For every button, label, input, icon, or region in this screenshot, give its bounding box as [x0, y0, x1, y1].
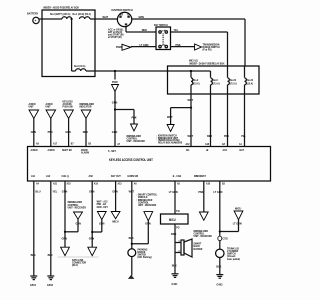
wire LG2 to ground: [48, 181, 58, 276]
wire KEY OUT to MICU arrow: [112, 181, 118, 212]
svg-text:UNDER - HOOD FUSE/RELAY BOX: UNDER - HOOD FUSE/RELAY BOX: [43, 6, 79, 10]
wire parking brake to body ground: [131, 257, 133, 276]
svg-text:PNK: PNK: [224, 134, 230, 138]
svg-text:GRN: GRN: [139, 15, 145, 19]
wire MICU box to smart back buzzer: [171, 224, 181, 253]
inline connector C725: [218, 236, 228, 241]
svg-text:B5: B5: [88, 141, 91, 145]
wire trunk switch to ground: [216, 258, 222, 275]
under-dash fuse/relay box: [168, 59, 260, 94]
ground G402: [216, 275, 223, 287]
svg-text:(10 A): (10 A): [247, 81, 253, 85]
arrow from immobilizer control unit-receiver into CHG wire: [64, 200, 87, 233]
svg-text:IG1: IG1: [186, 148, 190, 152]
svg-text:BUZZER: BUZZER: [194, 247, 204, 251]
svg-text:YEL: YEL: [53, 189, 58, 193]
svg-text:LT GRN: LT GRN: [214, 190, 223, 194]
svg-text:LT GRN: LT GRN: [169, 190, 178, 194]
svg-text:PNK: PNK: [176, 43, 182, 47]
svg-text:A17: A17: [53, 141, 57, 145]
svg-text:(7.5 A): (7.5 A): [230, 81, 237, 85]
svg-text:WHT: WHT: [103, 15, 109, 19]
svg-text:YEL: YEL: [174, 28, 179, 32]
svg-text:GRN - KEY: GRN - KEY: [97, 205, 108, 209]
svg-text:BAT: BAT: [120, 13, 124, 16]
svg-text:UNDER - DASH FUSE/RELAY BOX: UNDER - DASH FUSE/RELAY BOX: [189, 62, 225, 66]
control unit bottom internal labels: [31, 174, 206, 178]
wire GRN audio1 to control unit: [31, 119, 37, 147]
svg-text:ACC: ACC: [223, 148, 228, 152]
svg-text:A19: A19: [94, 181, 98, 185]
svg-text:at START (III): at START (III): [108, 35, 122, 39]
legend for connector: [97, 200, 108, 209]
svg-text:A4: A4: [36, 181, 39, 185]
svg-text:(P at PS): (P at PS): [203, 47, 212, 51]
arrow from audio unit 2: [46, 102, 56, 119]
svg-text:MICU: MICU: [235, 206, 242, 210]
svg-text:G401: G401: [172, 282, 178, 286]
svg-text:C725: C725: [223, 236, 229, 240]
svg-text:G501: G501: [30, 283, 36, 287]
svg-text:UNIT - RECEIVER: UNIT - RECEIVER: [68, 205, 87, 209]
svg-text:KEY OUT: KEY OUT: [111, 174, 121, 178]
svg-text:CHG (-): CHG (-): [62, 174, 70, 178]
svg-text:A7: A7: [117, 142, 120, 146]
wire B-CAN to MICU box, LT GRN: [169, 181, 180, 214]
svg-text:LT GRN: LT GRN: [140, 43, 149, 47]
arrow DLC 1: [61, 247, 70, 256]
smart back buzzer: [181, 239, 203, 257]
branch to immobilizer arrow: [115, 109, 134, 111]
wire GRN push switch to control unit: [65, 119, 71, 147]
svg-text:ALARM: ALARM: [81, 150, 89, 154]
svg-text:No.4 (ACG) (50 A): No.4 (ACG) (50 A): [73, 12, 91, 16]
fuse No.4 (ACG) (50A): [73, 12, 91, 19]
svg-text:A18: A18: [205, 142, 209, 146]
arrow from PGM feeding LT GRN: [116, 44, 131, 50]
wire IMMOENST to immobilizer arrow, PNK: [198, 181, 204, 212]
svg-text:G402: G402: [217, 283, 223, 287]
internal bus wire: [168, 66, 245, 78]
svg-text:GRN: GRN: [65, 130, 71, 134]
svg-text:UNIT - RECEIVER: UNIT - RECEIVER: [194, 234, 213, 238]
svg-text:+B: +B: [206, 148, 209, 152]
footnote list 2: [137, 193, 158, 207]
svg-text:A12: A12: [186, 142, 190, 146]
svg-text:GRN: GRN: [62, 189, 68, 193]
svg-text:YEL: YEL: [241, 134, 246, 138]
MICU box: [161, 214, 189, 224]
svg-text:A21: A21: [53, 181, 57, 185]
svg-text:A5: A5: [177, 181, 180, 185]
svg-text:GRN: GRN: [31, 130, 37, 134]
parking brake switch: [128, 247, 152, 259]
battery B1: [27, 12, 39, 24]
svg-text:GRN: GRN: [89, 189, 95, 193]
svg-text:A10: A10: [67, 181, 71, 185]
svg-text:BLK: BLK: [48, 253, 54, 257]
svg-text:LT GRN: LT GRN: [233, 222, 242, 226]
fuse No.2 (15A): [191, 78, 200, 85]
top pin labels: [36, 141, 242, 146]
wire battery to fuse box: [39, 18, 62, 20]
svg-text:(7.5 A): (7.5 A): [213, 81, 220, 85]
svg-text:GRN: GRN: [112, 189, 118, 193]
bottom pin labels: [36, 181, 225, 185]
svg-text:MICU: MICU: [169, 218, 176, 222]
svg-text:GRN: GRN: [112, 130, 118, 134]
wire HORN SW to parking brake switch: [129, 181, 135, 249]
ignition switch: [112, 8, 134, 27]
svg-text:PO: PO: [176, 225, 180, 229]
svg-text:BLK: BLK: [172, 263, 178, 267]
svg-text:PNK: PNK: [198, 190, 204, 194]
svg-text:BLK: BLK: [216, 264, 222, 268]
arrow to transmission range switch: [195, 43, 220, 52]
ignition switch note: [108, 28, 124, 39]
wire RED ignition bottom to key switch: [126, 27, 156, 33]
wire YEL key switch to under-dash box: [171, 28, 228, 66]
svg-text:A6: A6: [134, 181, 137, 185]
svg-text:BAT: BAT: [240, 148, 245, 152]
svg-text:INDICATOR: INDICATOR: [80, 105, 93, 109]
wire WHT fuse out down to control unit: [188, 85, 194, 147]
svg-text:WHT: WHT: [167, 115, 173, 119]
svg-text:HORN SW: HORN SW: [128, 174, 139, 178]
ground G501: [30, 276, 37, 287]
svg-text:A13: A13: [118, 181, 122, 185]
arrow from audio unit 1: [29, 102, 39, 119]
svg-text:BRN: BRN: [171, 232, 177, 236]
svg-text:T10: T10: [176, 209, 180, 213]
svg-text:(ON: Parking): (ON: Parking): [138, 255, 152, 259]
fuse No.22 (7.5A): [228, 78, 237, 85]
svg-text:No.2 (BATT) (100 A): No.2 (BATT) (100 A): [50, 12, 70, 16]
svg-text:B7: B7: [71, 141, 74, 145]
trunk lid cylinder switch: [216, 246, 240, 260]
svg-text:AS2: AS2: [89, 174, 94, 178]
under-hood fuse/relay box: [42, 6, 95, 77]
svg-text:B - CAN: B - CAN: [173, 174, 181, 178]
junction on WHT wire: [190, 107, 192, 109]
arrow from keyless access push switch: [63, 99, 74, 118]
svg-text:UNIT - RECEIVER: UNIT - RECEIVER: [138, 203, 157, 207]
svg-text:BLK: BLK: [31, 253, 37, 257]
svg-text:AUDIO: AUDIO: [48, 148, 56, 152]
wire LG1 to ground: [31, 181, 42, 276]
fuse No.2 (BATT) (100A): [50, 12, 72, 19]
svg-text:B2: B2: [222, 181, 225, 185]
wire GRN ignition to right, down to under-dash box: [132, 15, 245, 66]
arrow WHT branch: [167, 115, 174, 131]
ground G401: [172, 274, 179, 286]
svg-text:LG2: LG2: [46, 174, 51, 178]
svg-text:No.9 (40 A): No.9 (40 A): [74, 64, 85, 68]
svg-text:LG1: LG1: [31, 174, 36, 178]
wire AS2 to data link connector: [89, 181, 95, 247]
wire buzzer to ground: [172, 253, 178, 274]
svg-text:KEYLESS ACCESS CONTROL UNIT: KEYLESS ACCESS CONTROL UNIT: [109, 158, 153, 162]
data link connector label: [72, 258, 87, 267]
fuse No.6 (7.5A): [211, 78, 220, 85]
svg-text:PGM: PGM: [116, 45, 122, 49]
key switch: [154, 23, 171, 50]
svg-text:A8: A8: [222, 142, 225, 146]
svg-text:PNK: PNK: [132, 116, 138, 120]
arrow from MICU joining trunk wire: [219, 206, 243, 232]
arrow from PGM on WHT feed: [112, 70, 119, 92]
svg-text:IGNITION SWITCH: IGNITION SWITCH: [112, 8, 134, 12]
svg-text:S - NET: S - NET: [108, 149, 116, 153]
svg-text:MICU: MICU: [112, 219, 119, 223]
wire fuse No.6 down: [207, 85, 213, 147]
footnote list: [157, 133, 183, 144]
svg-text:A16: A16: [206, 181, 210, 185]
arrow DLC 2: [88, 247, 97, 256]
svg-text:A1: A1: [239, 142, 242, 146]
ground G502: [47, 276, 54, 287]
wire fuse No.23 down: [241, 85, 246, 147]
svg-text:BATTERY: BATTERY: [27, 12, 39, 16]
wire fuse No.4 to ignition switch, WHT: [90, 15, 117, 19]
wire trunk pin down, LT GRN: [214, 181, 223, 249]
svg-text:IMMOENST: IMMOENST: [194, 174, 206, 178]
svg-text:AUDIO: AUDIO: [31, 148, 39, 152]
svg-text:SHIFT B6: SHIFT B6: [62, 148, 72, 152]
svg-text:GRN: GRN: [112, 101, 118, 105]
svg-text:GRN: GRN: [89, 236, 95, 240]
keyless access control unit box: [28, 147, 271, 182]
svg-text:UNIT - RECEIVER: UNIT - RECEIVER: [127, 139, 146, 143]
svg-text:GRN: GRN: [62, 236, 68, 240]
svg-text:PNK: PNK: [48, 130, 54, 134]
svg-text:UNIT: UNIT: [29, 105, 34, 109]
wire PNK key switch to arrow: [171, 43, 195, 47]
svg-text:RED: RED: [83, 130, 89, 134]
wire fuse No.22 down: [224, 85, 230, 147]
wire down to fuse No.9: [71, 19, 73, 71]
fuse No.9 (40A): [72, 64, 86, 71]
svg-text:BLU: BLU: [36, 189, 42, 193]
DLC connector bar: [58, 256, 99, 258]
wire CHG to data link connector: [62, 181, 68, 247]
body ground symbol: [128, 275, 134, 279]
svg-text:WHT: WHT: [188, 98, 194, 102]
svg-text:A9: A9: [36, 141, 39, 145]
svg-text:G502: G502: [47, 283, 53, 287]
junction node at fuse bus: [71, 18, 73, 20]
wire WHT fuse No.9 to under-dash box: [86, 70, 168, 72]
svg-text:PUSH SW: PUSH SW: [63, 105, 73, 109]
arrow from immobilizer indicator: [80, 102, 95, 119]
wire PNK audio2 to control unit: [48, 119, 54, 147]
svg-text:BLK: BLK: [129, 236, 135, 240]
svg-text:(15 A): (15 A): [194, 81, 200, 85]
svg-text:(DLC): (DLC): [72, 263, 78, 267]
svg-text:RED: RED: [207, 134, 213, 138]
arrow branch into AS2 wire: [91, 212, 106, 234]
arrow to immobilizer control unit-receiver: [194, 212, 213, 238]
svg-text:lever pulled): lever pulled): [227, 257, 240, 261]
svg-text:WHT: WHT: [129, 189, 135, 193]
svg-text:WHT: WHT: [188, 134, 194, 138]
junction on GRN wire: [114, 108, 116, 110]
branch wire to arrow: [171, 107, 191, 109]
arrow to MICU: [111, 212, 120, 224]
fuse No.23 (10A): [245, 78, 254, 85]
wire RED indicator to control unit: [83, 119, 89, 147]
svg-text:PGM: PGM: [112, 80, 118, 84]
svg-text:RED: RED: [142, 28, 148, 32]
svg-text:RELAY BOX NUMBERS: RELAY BOX NUMBERS: [158, 141, 182, 145]
svg-text:UNIT: UNIT: [46, 105, 51, 109]
wire GRN down to control unit pin A7: [112, 92, 118, 147]
wire LT GRN to key switch: [131, 43, 156, 47]
arrow GRN feeding parking brake wire: [131, 212, 153, 245]
control unit top internal labels: [31, 148, 245, 155]
arrow to immobilizer control unit-receiver: [127, 116, 146, 143]
